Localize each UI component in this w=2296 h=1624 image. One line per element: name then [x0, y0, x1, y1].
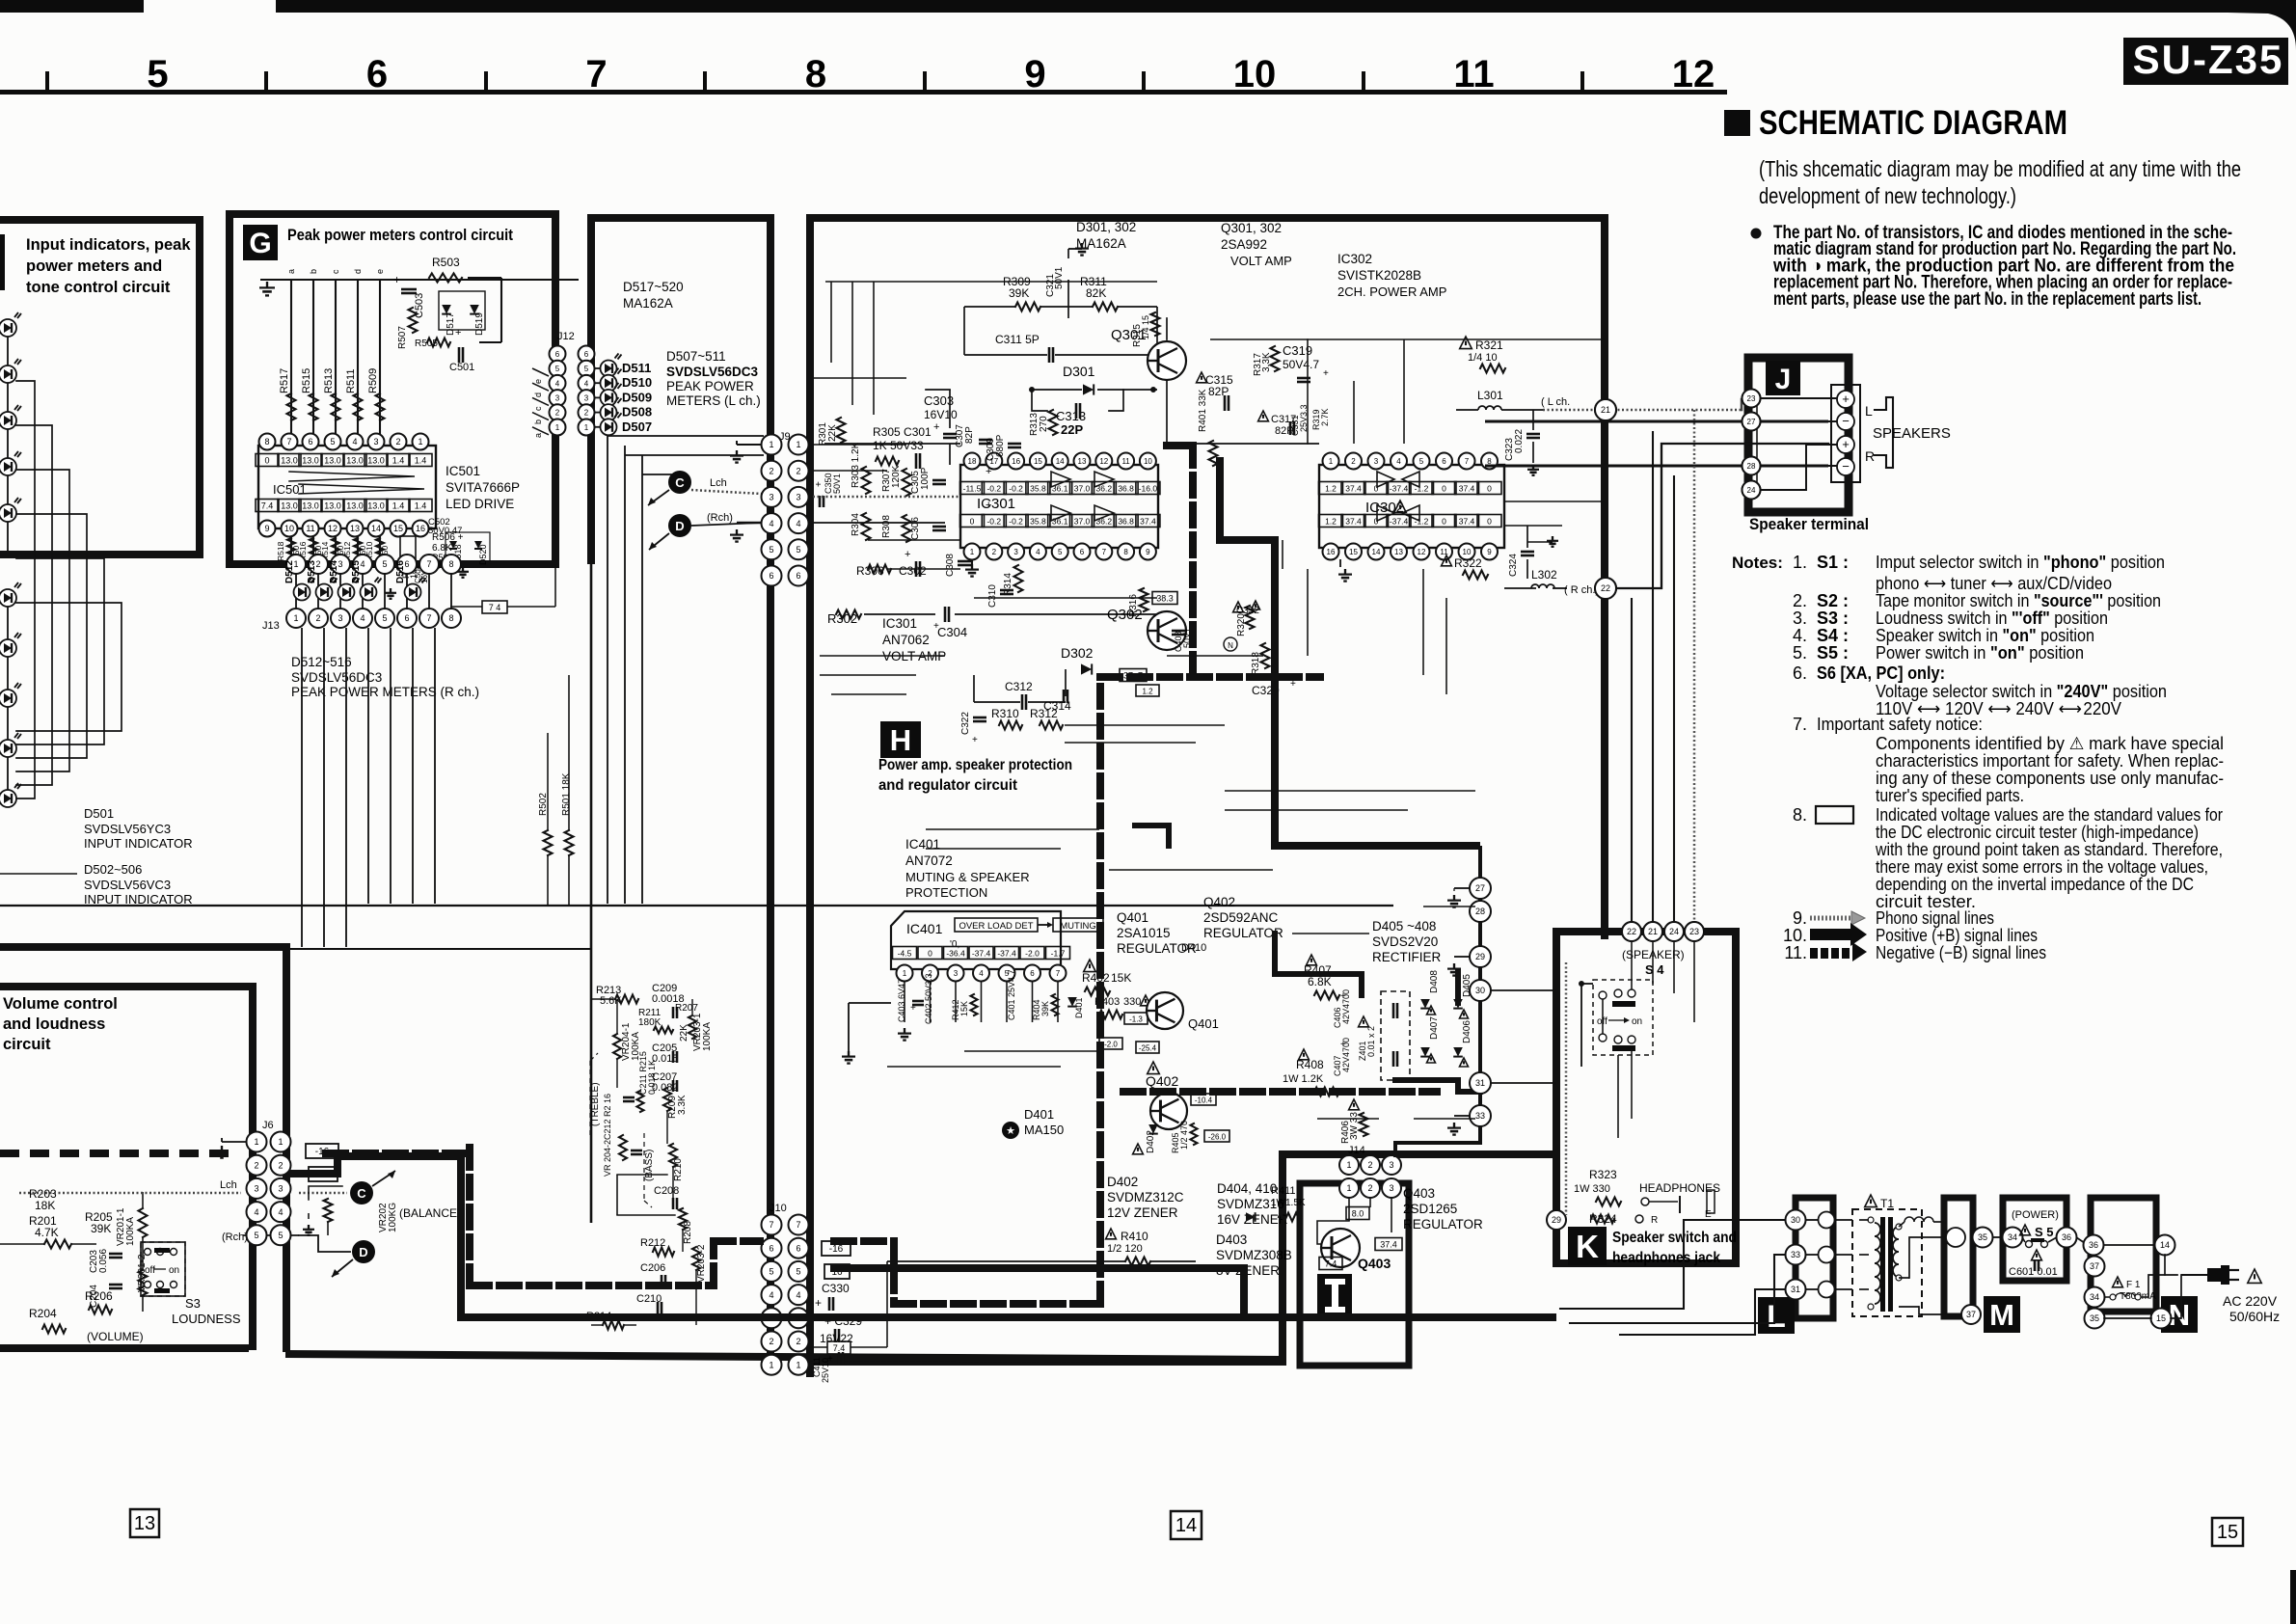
- svg-text:9.: 9.: [1793, 908, 1807, 928]
- svg-text:D302: D302: [1061, 645, 1094, 661]
- svg-text:2: 2: [254, 1160, 258, 1170]
- svg-text:-36.4: -36.4: [946, 949, 965, 959]
- svg-text:C322: C322: [960, 712, 971, 735]
- svg-text:R: R: [1865, 448, 1875, 464]
- svg-text:0: 0: [1374, 517, 1379, 527]
- svg-text:34: 34: [2090, 1292, 2099, 1302]
- svg-text:5: 5: [796, 1267, 800, 1277]
- svg-text:3: 3: [254, 1184, 258, 1194]
- svg-text:R503: R503: [432, 256, 460, 269]
- svg-text:36.8: 36.8: [1118, 517, 1134, 527]
- svg-text:7: 7: [1465, 457, 1470, 466]
- svg-text:2: 2: [395, 437, 400, 447]
- svg-text:4: 4: [360, 613, 365, 623]
- svg-text:1W 1.2K: 1W 1.2K: [1283, 1073, 1324, 1085]
- svg-text:e: e: [375, 269, 385, 274]
- svg-text:7: 7: [585, 53, 607, 95]
- svg-text:37.4: 37.4: [1140, 517, 1156, 527]
- svg-text:2: 2: [584, 409, 589, 418]
- svg-text:Lch: Lch: [220, 1179, 237, 1191]
- svg-text:31: 31: [1475, 1078, 1485, 1088]
- svg-text:7: 7: [426, 613, 431, 623]
- svg-text:AN7072: AN7072: [905, 853, 953, 868]
- svg-text:S 4: S 4: [1645, 962, 1664, 977]
- svg-text:39K: 39K: [1009, 286, 1029, 300]
- svg-text:0: 0: [1442, 517, 1446, 527]
- svg-text:IC301: IC301: [882, 616, 917, 631]
- svg-text:-2.0: -2.0: [1025, 949, 1040, 959]
- svg-text:18K: 18K: [35, 1199, 55, 1212]
- svg-text:SU-Z35: SU-Z35: [2133, 37, 2284, 82]
- svg-text:8.: 8.: [1793, 805, 1807, 825]
- svg-text:9: 9: [264, 524, 269, 533]
- svg-text:D406: D406: [1462, 1020, 1472, 1043]
- svg-text:-25.4: -25.4: [1139, 1044, 1157, 1053]
- svg-text:2: 2: [1351, 457, 1356, 466]
- svg-text:10: 10: [284, 524, 294, 533]
- svg-text:METERS (L ch.): METERS (L ch.): [666, 393, 761, 408]
- svg-text:L: L: [1767, 1299, 1786, 1334]
- svg-text:28: 28: [1747, 462, 1756, 471]
- svg-text:13.0: 13.0: [367, 456, 385, 466]
- svg-text:3: 3: [338, 613, 342, 623]
- svg-text:D519: D519: [474, 312, 485, 336]
- svg-text:2CH. POWER AMP: 2CH. POWER AMP: [1337, 284, 1446, 299]
- svg-text:ing any of these components us: ing any of these components use only man…: [1876, 769, 2224, 788]
- svg-text:+: +: [455, 327, 461, 338]
- svg-text:16: 16: [1327, 548, 1336, 556]
- svg-text:power meters and: power meters and: [26, 257, 162, 275]
- svg-text:SVITA7666P: SVITA7666P: [446, 480, 520, 495]
- svg-text:9: 9: [1024, 53, 1045, 95]
- svg-text:8: 8: [805, 53, 826, 95]
- svg-text:LOUDNESS: LOUDNESS: [172, 1312, 241, 1326]
- svg-text:1: 1: [796, 1360, 800, 1369]
- svg-text:120K: 120K: [891, 465, 902, 488]
- svg-text:2: 2: [769, 1337, 773, 1346]
- svg-text:2: 2: [1367, 1160, 1372, 1170]
- svg-text:-37.4: -37.4: [1390, 517, 1409, 527]
- svg-text:1W1.5K: 1W1.5K: [1271, 1198, 1306, 1208]
- svg-text:15K: 15K: [1111, 971, 1131, 985]
- svg-text:-1.3: -1.3: [1129, 1015, 1143, 1024]
- svg-text:J13: J13: [262, 620, 280, 632]
- svg-text:3: 3: [1374, 457, 1379, 466]
- svg-text:13.0: 13.0: [324, 456, 341, 466]
- svg-text:D513: D513: [307, 560, 317, 583]
- svg-text:10: 10: [1233, 53, 1277, 95]
- svg-text:50V1: 50V1: [832, 474, 842, 494]
- svg-text:S5 :: S5 :: [1817, 643, 1849, 663]
- svg-text:-4.5: -4.5: [898, 949, 912, 959]
- svg-text:(BASS): (BASS): [644, 1150, 655, 1181]
- svg-text:9: 9: [1146, 548, 1150, 556]
- svg-text:24: 24: [1669, 927, 1679, 936]
- svg-text:2: 2: [315, 613, 320, 623]
- svg-text:4: 4: [352, 437, 357, 447]
- svg-text:5: 5: [382, 613, 387, 623]
- svg-text:3.3K: 3.3K: [1261, 352, 1272, 372]
- svg-text:22: 22: [1601, 583, 1610, 593]
- svg-text:R314: R314: [1003, 573, 1013, 596]
- svg-text:1: 1: [555, 423, 560, 432]
- svg-text:D507: D507: [622, 420, 652, 434]
- svg-text:13.0: 13.0: [367, 501, 385, 511]
- svg-text:13.0: 13.0: [281, 501, 298, 511]
- svg-text:D410: D410: [1181, 942, 1206, 954]
- svg-text:D401: D401: [1024, 1107, 1054, 1122]
- svg-text:R204: R204: [29, 1307, 57, 1320]
- svg-text:6: 6: [1442, 457, 1446, 466]
- svg-text:SVDMZ312C: SVDMZ312C: [1107, 1190, 1184, 1204]
- svg-text:6: 6: [1030, 969, 1035, 978]
- svg-text:-2.0: -2.0: [1104, 1041, 1118, 1049]
- svg-text:-0.2: -0.2: [1009, 484, 1023, 494]
- svg-text:15: 15: [1034, 457, 1042, 466]
- svg-text:d: d: [533, 392, 543, 397]
- svg-text:37.0: 37.0: [1074, 484, 1091, 494]
- svg-text:12: 12: [328, 524, 338, 533]
- svg-text:1.: 1.: [1793, 553, 1807, 572]
- svg-text:with the ground point taken as: with the ground point taken as standard.…: [1875, 840, 2223, 859]
- svg-text:22K: 22K: [827, 424, 838, 442]
- svg-text:-37.4: -37.4: [1390, 484, 1409, 494]
- svg-text:R303 1.2K: R303 1.2K: [851, 442, 861, 488]
- svg-text:82K: 82K: [1086, 286, 1106, 300]
- svg-text:C208: C208: [654, 1185, 679, 1197]
- svg-text:S2 :: S2 :: [1817, 591, 1849, 610]
- svg-text:R207: R207: [675, 1003, 698, 1014]
- svg-text:R401 33K: R401 33K: [1198, 389, 1208, 432]
- svg-text:28: 28: [1475, 907, 1485, 916]
- svg-text:-1.7: -1.7: [1051, 949, 1066, 959]
- svg-text:8: 8: [448, 613, 453, 623]
- svg-text:1/4 10: 1/4 10: [1468, 352, 1498, 364]
- svg-text:1: 1: [293, 613, 298, 623]
- svg-text:MUTING: MUTING: [1060, 921, 1095, 932]
- svg-text:R517: R517: [279, 368, 290, 393]
- svg-text:0: 0: [1374, 484, 1379, 494]
- svg-text:D510: D510: [622, 375, 652, 390]
- svg-text:-16: -16: [829, 1244, 844, 1255]
- svg-text:11.: 11.: [1784, 943, 1807, 962]
- svg-text:(Rch): (Rch): [707, 512, 733, 524]
- svg-text:22: 22: [1627, 927, 1636, 936]
- svg-text:10.: 10.: [1783, 926, 1807, 945]
- svg-text:L301: L301: [1477, 389, 1503, 402]
- svg-text:+: +: [1842, 392, 1850, 406]
- svg-text:J12: J12: [557, 331, 575, 342]
- svg-text:S 5: S 5: [2035, 1225, 2054, 1239]
- svg-text:6: 6: [366, 53, 388, 95]
- svg-text:8: 8: [264, 437, 269, 447]
- svg-text:0: 0: [970, 517, 975, 527]
- svg-text:headphones jack: headphones jack: [1612, 1250, 1720, 1266]
- svg-text:1: 1: [796, 440, 800, 449]
- svg-text:Power switch in "on" position: Power switch in "on" position: [1876, 643, 2084, 663]
- svg-text:50V1: 50V1: [1054, 266, 1065, 289]
- svg-text:AC 220V: AC 220V: [2223, 1293, 2278, 1309]
- svg-text:37.4: 37.4: [1459, 517, 1475, 527]
- svg-text:D408: D408: [1429, 970, 1440, 993]
- svg-text:C324: C324: [1508, 554, 1519, 577]
- svg-text:5: 5: [584, 365, 589, 373]
- svg-text:2: 2: [1367, 1183, 1372, 1193]
- svg-text:14: 14: [1056, 457, 1065, 466]
- svg-text:16: 16: [1012, 457, 1020, 466]
- svg-text:30: 30: [1791, 1215, 1800, 1225]
- svg-text:7: 7: [286, 437, 291, 447]
- svg-text:D509: D509: [622, 390, 652, 404]
- svg-text:13.0: 13.0: [281, 456, 298, 466]
- svg-text:D301: D301: [1063, 364, 1095, 379]
- svg-text:23: 23: [1747, 394, 1756, 403]
- svg-text:1: 1: [278, 1137, 283, 1147]
- svg-text:S6 [XA, PC] only:: S6 [XA, PC] only:: [1817, 663, 1945, 683]
- svg-text:16V10: 16V10: [924, 408, 958, 421]
- svg-text:Negative (−B) signal lines: Negative (−B) signal lines: [1876, 943, 2046, 962]
- svg-text:1.4: 1.4: [415, 456, 427, 466]
- svg-text:D502~506: D502~506: [84, 862, 142, 877]
- svg-text:R: R: [1651, 1215, 1658, 1226]
- svg-text:depending on the invertal impe: depending on the invertal impedance of t…: [1876, 875, 2194, 894]
- svg-text:L: L: [1865, 403, 1873, 419]
- svg-text:SVDSLV56VC3: SVDSLV56VC3: [84, 878, 171, 892]
- svg-text:3.: 3.: [1793, 609, 1807, 628]
- svg-text:36.8: 36.8: [1118, 484, 1134, 494]
- svg-text:4.: 4.: [1793, 626, 1807, 645]
- svg-text:37.4: 37.4: [1459, 484, 1475, 494]
- svg-text:+: +: [933, 421, 939, 433]
- svg-text:1.4: 1.4: [392, 501, 405, 511]
- svg-text:Input indicators, peak: Input indicators, peak: [26, 236, 191, 254]
- svg-text:2.: 2.: [1793, 591, 1807, 610]
- svg-text:3: 3: [1389, 1183, 1393, 1193]
- svg-text:4: 4: [254, 1207, 258, 1217]
- svg-text:the DC electronic circuit test: the DC electronic circuit tester (high-i…: [1876, 823, 2199, 842]
- svg-text:1: 1: [1329, 457, 1334, 466]
- svg-text:turer's specified parts.: turer's specified parts.: [1876, 786, 2024, 805]
- svg-text:13: 13: [134, 1513, 155, 1534]
- svg-text:1: 1: [769, 440, 773, 449]
- svg-text:J: J: [1775, 364, 1792, 395]
- svg-text:3: 3: [373, 437, 378, 447]
- svg-text:13.0: 13.0: [302, 456, 319, 466]
- svg-text:1/2 120: 1/2 120: [1107, 1243, 1143, 1255]
- svg-text:R518: R518: [276, 541, 285, 561]
- svg-text:39K: 39K: [1040, 1001, 1050, 1016]
- svg-text:4: 4: [1036, 548, 1040, 556]
- svg-text:R501 18K: R501 18K: [561, 772, 572, 816]
- svg-text:1: 1: [970, 548, 975, 556]
- svg-text:6: 6: [1080, 548, 1085, 556]
- svg-text:29: 29: [1552, 1215, 1561, 1225]
- svg-text:Components identified by ⚠ mar: Components identified by ⚠ mark have spe…: [1876, 734, 2224, 753]
- svg-text:6: 6: [769, 1243, 773, 1253]
- svg-text:3: 3: [796, 493, 800, 502]
- svg-text:9: 9: [1487, 548, 1492, 556]
- svg-text:14: 14: [1372, 548, 1381, 556]
- svg-text:5: 5: [330, 437, 335, 447]
- svg-text:1.2: 1.2: [1325, 517, 1337, 527]
- svg-text:7: 7: [1056, 969, 1061, 978]
- svg-text:6.: 6.: [1793, 663, 1807, 683]
- svg-text:4: 4: [796, 1290, 800, 1300]
- svg-text:3: 3: [555, 393, 560, 402]
- svg-text:PEAK POWER METERS (R ch.): PEAK POWER METERS (R ch.): [291, 685, 479, 699]
- svg-text:2: 2: [992, 548, 997, 556]
- svg-text:11: 11: [1121, 457, 1130, 466]
- svg-text:S1 :: S1 :: [1817, 553, 1849, 572]
- svg-text:11: 11: [306, 524, 314, 533]
- svg-text:VOLT AMP: VOLT AMP: [1230, 254, 1292, 268]
- svg-text:c: c: [331, 269, 340, 274]
- svg-text:R507: R507: [397, 326, 408, 349]
- svg-text:D301, 302: D301, 302: [1076, 220, 1136, 234]
- svg-text:S3: S3: [185, 1296, 201, 1311]
- svg-text:2: 2: [769, 466, 773, 475]
- svg-text:27: 27: [1747, 418, 1756, 426]
- svg-text:D520: D520: [478, 544, 488, 565]
- svg-text:34: 34: [2008, 1232, 2017, 1242]
- svg-text:Tape monitor switch in "source: Tape monitor switch in "source"' positio…: [1876, 591, 2161, 610]
- svg-text:7: 7: [1102, 548, 1107, 556]
- svg-text:PROTECTION: PROTECTION: [905, 885, 987, 900]
- svg-text:LED DRIVE: LED DRIVE: [446, 497, 514, 511]
- svg-text:-10.4: -10.4: [1195, 1096, 1213, 1105]
- svg-text:R509: R509: [367, 368, 379, 393]
- svg-text:3: 3: [954, 969, 959, 978]
- svg-text:35: 35: [1978, 1232, 1987, 1242]
- svg-text:1/2 470: 1/2 470: [1179, 1121, 1189, 1150]
- svg-text:36: 36: [2089, 1240, 2098, 1250]
- svg-text:IC301: IC301: [977, 496, 1015, 512]
- svg-text:Lch: Lch: [710, 477, 727, 489]
- svg-text:MUTING & SPEAKER: MUTING & SPEAKER: [905, 870, 1030, 884]
- svg-text:2SA992: 2SA992: [1221, 237, 1267, 252]
- svg-text:330: 330: [1123, 996, 1141, 1008]
- svg-text:R513: R513: [323, 368, 335, 393]
- svg-text:180K: 180K: [638, 1017, 662, 1028]
- svg-text:development of new technology.: development of new technology.): [1759, 183, 2016, 208]
- svg-text:6: 6: [555, 350, 560, 359]
- svg-text:C304: C304: [937, 625, 967, 639]
- svg-text:6: 6: [769, 571, 773, 581]
- svg-text:SVISTK2028B: SVISTK2028B: [1337, 268, 1421, 283]
- svg-text:11: 11: [1453, 53, 1494, 95]
- svg-text:C403 6V47: C403 6V47: [897, 979, 906, 1022]
- svg-text:Q401: Q401: [1117, 910, 1148, 925]
- svg-text:R515: R515: [301, 368, 312, 393]
- svg-text:C313: C313: [1056, 409, 1086, 423]
- svg-text:16V ZENER: 16V ZENER: [1217, 1212, 1288, 1227]
- svg-text:HEADPHONES: HEADPHONES: [1639, 1181, 1720, 1195]
- svg-text:R308: R308: [881, 515, 892, 538]
- svg-text:1.2: 1.2: [1325, 484, 1337, 494]
- svg-text:5: 5: [555, 365, 560, 373]
- svg-text:C206: C206: [640, 1262, 665, 1274]
- svg-text:82P: 82P: [964, 426, 975, 444]
- svg-text:+: +: [986, 466, 991, 477]
- svg-text:35.8: 35.8: [1030, 484, 1046, 494]
- svg-text:N: N: [1228, 641, 1233, 650]
- svg-text:R411: R411: [1271, 1185, 1295, 1197]
- svg-text:1W 330: 1W 330: [1574, 1183, 1610, 1195]
- svg-text:IC401: IC401: [906, 921, 943, 936]
- svg-text:42V4700: 42V4700: [1341, 989, 1351, 1024]
- svg-text:37.4: 37.4: [1345, 484, 1362, 494]
- svg-text:37: 37: [2090, 1261, 2099, 1271]
- svg-text:0: 0: [264, 456, 269, 466]
- svg-text:C311 5P: C311 5P: [995, 333, 1040, 346]
- svg-text:D507~511: D507~511: [666, 349, 726, 364]
- svg-text:8: 8: [1123, 548, 1128, 556]
- svg-text:21: 21: [1648, 927, 1658, 936]
- svg-text:b: b: [309, 269, 318, 274]
- svg-text:D512: D512: [284, 560, 295, 583]
- svg-text:off: off: [145, 1265, 155, 1276]
- svg-text:2.7K: 2.7K: [1320, 408, 1330, 426]
- svg-text:R312: R312: [1030, 707, 1058, 720]
- svg-text:31: 31: [1791, 1285, 1800, 1294]
- svg-text:R505: R505: [415, 338, 438, 349]
- svg-text:+: +: [827, 1354, 833, 1365]
- svg-text:1K 50V33: 1K 50V33: [873, 439, 924, 452]
- svg-text:13.0: 13.0: [302, 501, 319, 511]
- svg-text:−: −: [1842, 414, 1850, 428]
- svg-text:(VOLUME): (VOLUME): [87, 1330, 144, 1343]
- svg-text:5.: 5.: [1793, 643, 1807, 663]
- svg-text:5: 5: [147, 53, 168, 95]
- svg-text:R305 C301: R305 C301: [873, 425, 932, 439]
- svg-text:8: 8: [448, 559, 453, 569]
- svg-text:24: 24: [1747, 486, 1756, 495]
- svg-text:M: M: [1989, 1298, 2014, 1332]
- svg-text:D511: D511: [622, 361, 651, 375]
- svg-text:+: +: [815, 1296, 822, 1310]
- svg-text:J10: J10: [770, 1203, 787, 1214]
- svg-text:0: 0: [1487, 484, 1492, 494]
- svg-text:-11.5: -11.5: [963, 484, 982, 494]
- svg-text:100P: 100P: [920, 467, 931, 490]
- svg-text:R304: R304: [851, 513, 861, 536]
- svg-text:1.2: 1.2: [1142, 688, 1153, 696]
- svg-text:C306: C306: [910, 517, 921, 540]
- svg-text:C: C: [675, 475, 685, 490]
- svg-text:13: 13: [1078, 457, 1087, 466]
- svg-text:R402: R402: [1082, 971, 1110, 985]
- svg-text:Phono signal lines: Phono signal lines: [1876, 908, 1994, 928]
- svg-text:37.4: 37.4: [1380, 1240, 1397, 1250]
- svg-text:5: 5: [254, 1231, 258, 1240]
- svg-text:100KA: 100KA: [125, 1217, 136, 1246]
- svg-text:37.0: 37.0: [1074, 517, 1091, 527]
- svg-text:Q402: Q402: [1146, 1073, 1178, 1089]
- svg-text:7: 7: [796, 1220, 800, 1230]
- svg-text:C601 0.01: C601 0.01: [2009, 1266, 2058, 1278]
- svg-text:3W 33: 3W 33: [1349, 1112, 1360, 1140]
- svg-text:OVER LOAD DET: OVER LOAD DET: [959, 921, 1033, 932]
- svg-text:7.4: 7.4: [833, 1343, 846, 1353]
- svg-text:50/60Hz: 50/60Hz: [2229, 1309, 2280, 1324]
- svg-text:0: 0: [1442, 484, 1446, 494]
- svg-text:C302: C302: [899, 564, 927, 578]
- svg-text:+: +: [1842, 437, 1850, 451]
- svg-text:36.2: 36.2: [1096, 517, 1113, 527]
- svg-text:C501: C501: [449, 362, 474, 373]
- svg-text:4: 4: [1396, 457, 1401, 466]
- svg-text:Indicated voltage values are t: Indicated voltage values are the standar…: [1876, 805, 2223, 825]
